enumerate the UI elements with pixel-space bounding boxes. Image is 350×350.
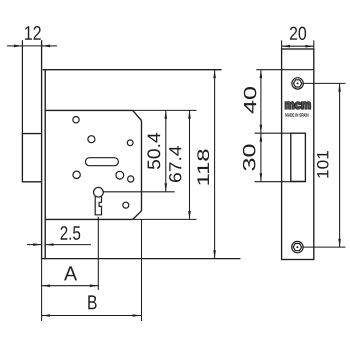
hole lower-left	[73, 171, 80, 178]
screw top center dot	[297, 82, 299, 84]
arrow 30 top	[260, 133, 263, 141]
label 12	[25, 26, 41, 40]
label 30	[243, 145, 256, 171]
hole top-left	[73, 117, 79, 123]
arrowheads	[14, 45, 341, 317]
arrow 40 top	[260, 70, 263, 78]
case bottom edge	[41, 258, 241, 260]
wire: keyhole center leader (50.4 lower ref)	[103, 191, 174, 193]
dimension 20 extension lines	[282, 40, 314, 49]
label A	[64, 266, 77, 280]
screw hole bottom hexagon	[293, 244, 301, 251]
made in spain text	[285, 113, 308, 117]
arrow 2.5 left	[33, 243, 41, 246]
keyhole circle	[94, 187, 104, 197]
arrow B left	[42, 314, 50, 317]
mechanism plate top edge + extension	[45, 109, 133, 111]
dimension A line	[42, 285, 99, 287]
arrow 20 right	[305, 45, 313, 48]
wire: slot top extension	[255, 132, 291, 134]
screw hole bottom outer	[292, 241, 303, 252]
wire: bottom screw leader	[303, 246, 345, 248]
mechanism plate bottom edge + extension	[45, 218, 133, 220]
faceplate back edge (side view)	[44, 70, 46, 260]
arrow 67.4 top	[188, 110, 191, 118]
dimension 2.5 line	[27, 244, 91, 246]
arrow 118 bottom	[213, 250, 216, 258]
label 101	[317, 151, 329, 178]
wire: A/B left extension line	[41, 260, 43, 322]
keyhole shaft	[95, 196, 101, 215]
dimension 67.4 line	[189, 110, 191, 219]
arrow 118 top	[213, 70, 216, 78]
mcm logo	[285, 102, 310, 109]
case top edge	[43, 69, 222, 71]
arrow 40 bottom	[260, 125, 263, 133]
wire: slot bottom extension	[255, 181, 306, 183]
arrow A right	[90, 284, 98, 287]
arrow 50.4 top	[165, 110, 168, 118]
arrow 67.4 bottom	[188, 211, 191, 219]
wire: extension line left of bolt (12 dim left ext)	[21, 40, 23, 133]
arrow 50.4 bottom	[165, 183, 168, 191]
faceplate front edge (side view)	[41, 40, 43, 259]
dimension 30 line	[260, 133, 262, 182]
label B	[88, 295, 96, 309]
faceplate front view outline	[282, 49, 314, 260]
arrow A left	[42, 284, 50, 287]
dimension 50.4 line	[165, 110, 167, 191]
mechanism plate bottom-right chamfer	[133, 211, 142, 220]
wire: case top extension through right faceplate	[256, 69, 314, 71]
dimension 40 line	[260, 70, 262, 134]
bolt (side view box)	[22, 134, 41, 182]
hole mid-left	[88, 136, 95, 143]
dimension B line	[42, 315, 141, 317]
mechanism plate top-right chamfer	[133, 110, 142, 120]
wire: keyhole vertical extension (A right ext)	[97, 217, 99, 290]
wire: B right extension line	[141, 219, 143, 321]
mechanism plate right edge	[141, 121, 143, 211]
arrow 12 left	[14, 45, 22, 48]
screw hole top hexagon	[293, 80, 301, 87]
dimension 12 line	[7, 45, 57, 47]
hole lower-small	[128, 176, 134, 182]
dimension 118 line	[214, 70, 216, 259]
arrow B right	[133, 314, 141, 317]
arrow 101 top	[338, 83, 341, 91]
screw bottom center dot	[296, 246, 298, 248]
slot (handle follower slot)	[85, 158, 118, 166]
label 67.4	[169, 146, 181, 182]
arrow 2.5 right	[45, 243, 53, 246]
arrow 20 left	[282, 45, 290, 48]
hole bottom	[123, 202, 129, 208]
wire: top screw leader	[303, 82, 345, 84]
hole mid-right	[127, 140, 133, 146]
screw hole top outer	[292, 78, 303, 89]
label 118	[197, 150, 209, 185]
label 2.5	[61, 226, 81, 240]
label 50.4	[147, 133, 160, 169]
arrow 101 bottom	[338, 239, 341, 247]
arrow 12 right	[42, 45, 50, 48]
dimension 101 line	[339, 83, 341, 247]
label 20	[290, 27, 306, 40]
bolt slot in faceplate	[291, 133, 306, 181]
label 40	[244, 87, 256, 113]
arrow 30 bottom	[260, 173, 263, 181]
hole lower-mid	[116, 171, 124, 179]
